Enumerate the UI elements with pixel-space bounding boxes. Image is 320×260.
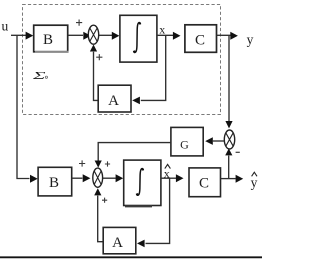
- label x-hat (state estimate): [164, 164, 171, 180]
- wire yhat branch up to S3: [228, 156, 230, 179]
- node branch x-hat down to A2: [146, 178, 170, 243]
- arrowhead into I2: [116, 174, 124, 182]
- arrowhead up into S2: [94, 188, 101, 195]
- wire S1 to integrator I1: [99, 34, 112, 36]
- svg-text:y: y: [251, 175, 258, 190]
- svg-text:C: C: [195, 32, 205, 48]
- dashed system boundary box: [23, 5, 221, 115]
- block B2 (lower B): [38, 167, 72, 196]
- summing junction S3 (comparator): [224, 130, 234, 149]
- plus sign (G input of S2): [105, 161, 110, 166]
- wire u input: [11, 34, 26, 36]
- arrowhead into B2: [30, 175, 38, 183]
- block A1 (top A): [98, 85, 131, 112]
- wire S3 to G: [213, 140, 225, 142]
- arrowhead at y-hat output: [236, 175, 244, 183]
- arrowhead into A2 right side: [137, 240, 145, 248]
- block G (observer gain): [171, 127, 203, 155]
- page separator line: [0, 256, 262, 258]
- block B1 (top B): [34, 25, 69, 52]
- wire I1 to C1: [157, 34, 173, 36]
- block A2 (lower A): [103, 227, 136, 253]
- minus sign (yhat input of S3): [236, 151, 240, 153]
- arrowhead into junction S1: [83, 32, 91, 40]
- label y-hat (output estimate): [251, 172, 258, 190]
- label y (output): [247, 32, 254, 47]
- arrowhead up into S3: [225, 149, 232, 156]
- svg-text:B: B: [49, 175, 59, 191]
- arrowhead into C2: [176, 174, 184, 182]
- svg-text:x: x: [159, 22, 165, 36]
- wire I2 to C2: [161, 177, 176, 179]
- wire B2 to S2: [72, 177, 83, 179]
- arrowhead into A1 right side: [132, 97, 140, 105]
- svg-text:u: u: [2, 19, 9, 34]
- svg-text:G: G: [180, 137, 189, 151]
- plus sign (u input of S2): [79, 160, 85, 166]
- svg-text:A: A: [108, 93, 119, 109]
- arrowhead up into S1: [90, 45, 97, 52]
- arrowhead down into comparator S3: [225, 121, 232, 128]
- plus sign (feedback input of S1): [96, 54, 102, 60]
- plus sign (A feedback input of S2): [102, 198, 107, 203]
- svg-text:Σ: Σ: [31, 71, 46, 82]
- arrowhead into S2 left: [83, 174, 91, 182]
- plus sign (u input of S1): [76, 20, 82, 26]
- wire G output to S2 top: [98, 143, 171, 161]
- arrowhead into G right side: [205, 137, 213, 145]
- label u (input): [2, 19, 9, 34]
- svg-text:B: B: [43, 32, 53, 48]
- arrowhead at y output: [230, 32, 238, 40]
- wire S2 to integrator I2: [103, 177, 116, 179]
- svg-text:C: C: [199, 176, 209, 192]
- wire A1 output to S1 bottom: [94, 52, 99, 101]
- label Sigma_o (system name): [31, 71, 48, 82]
- block I1 integrator (top): [120, 15, 157, 62]
- summing junction S2: [93, 168, 103, 187]
- summing junction S1: [88, 25, 98, 44]
- svg-text:y: y: [247, 32, 254, 47]
- node branch y down to comparator: [228, 35, 230, 121]
- wire B1 to summing junction: [68, 34, 83, 36]
- node branch from u down to lower B: [17, 35, 30, 178]
- label x (state): [159, 22, 165, 36]
- wire C2 to output y-hat: [221, 178, 236, 180]
- wire A2 output to S2 bottom: [98, 196, 103, 242]
- node branch x down to A1: [141, 35, 166, 100]
- block I2 integrator (lower): [124, 160, 161, 206]
- arrowhead into I1: [112, 32, 120, 40]
- arrowhead into B1: [26, 32, 34, 40]
- arrowhead into C1: [173, 32, 181, 40]
- wire C1 to output y: [217, 34, 231, 36]
- arrowhead down into S2: [95, 161, 102, 168]
- block C2 (lower C): [189, 168, 221, 197]
- block C1 (top C): [185, 25, 217, 53]
- svg-text:A: A: [112, 235, 123, 251]
